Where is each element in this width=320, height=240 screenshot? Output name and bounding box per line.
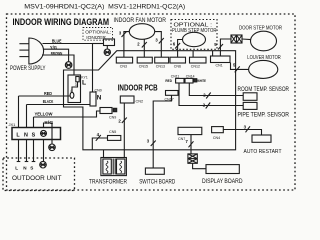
louver wire: [231, 63, 249, 70]
svg-text:OPTIONAL:: OPTIONAL:: [85, 30, 111, 36]
wire blue stub to ionizer: [93, 43, 104, 45]
svg-text:SWITCH BOARD: SWITCH BOARD: [139, 180, 176, 186]
louver connector slash 5: [235, 66, 240, 72]
svg-text:PIPE TEMP. SENSOR: PIPE TEMP. SENSOR: [238, 113, 290, 119]
svg-text:JX1: JX1: [9, 122, 17, 127]
plug prong 1: [19, 43, 29, 45]
svg-text:N: N: [24, 132, 28, 138]
svg-text:RED: RED: [165, 78, 172, 83]
svg-text:S: S: [30, 165, 33, 170]
svg-text:OUTDOOR UNIT: OUTDOOR UNIT: [12, 175, 62, 182]
svg-text:WHITE: WHITE: [197, 78, 206, 83]
svg-text:PLUMB STEP MOTOR: PLUMB STEP MOTOR: [172, 28, 217, 34]
fan wire left: [124, 32, 129, 58]
optional ionizer dashed box: [83, 28, 113, 41]
door step motor ellipse: [251, 31, 277, 51]
transformer core lines: [112, 159, 114, 175]
terminal mark square white: [194, 79, 197, 82]
transformer right coil box: [117, 159, 125, 174]
ground symbol chassis: [49, 144, 56, 151]
switch board box: [145, 168, 164, 174]
plumb step motor dashed box: [171, 20, 217, 50]
switch wire slash 3: [151, 141, 156, 147]
wire N up: [26, 105, 28, 128]
svg-text:CN7: CN7: [178, 137, 185, 141]
plug prong 2: [19, 49, 29, 51]
door motor X connector: [231, 35, 242, 43]
svg-text:N: N: [97, 94, 102, 101]
power supply plug: [29, 38, 44, 64]
wire ground down to outdoor: [43, 140, 45, 162]
connector CN9: [100, 108, 112, 114]
display board box: [206, 165, 239, 174]
outdoor terminal tick N: [25, 161, 29, 163]
svg-text:CN12: CN12: [191, 65, 200, 69]
wire BLUE horizontal: [43, 43, 93, 45]
pipe sensor slash 2: [206, 103, 211, 109]
outdoor terminal tick S: [32, 161, 36, 163]
CN5 slash 4: [96, 135, 101, 141]
svg-text:ROOM TEMP. SENSOR: ROOM TEMP. SENSOR: [238, 87, 290, 93]
svg-text:CN14: CN14: [186, 74, 195, 78]
wire YELLOW: [34, 111, 101, 117]
stub CN12: [192, 51, 194, 58]
room temp sensor box: [243, 93, 257, 101]
svg-text:L: L: [82, 80, 86, 87]
connector CN14: [185, 78, 193, 83]
svg-text:YELLOW: YELLOW: [35, 112, 54, 117]
svg-text:CN5: CN5: [109, 130, 116, 134]
relay internal wire: [72, 82, 78, 93]
wire RED: [19, 95, 71, 97]
wire L up: [18, 96, 20, 128]
ionizer ground stem: [106, 46, 108, 50]
wire Y/G: [44, 49, 69, 62]
connector CN7: [178, 127, 202, 134]
plumb step motor ellipse: [183, 32, 206, 46]
transformer stub left: [103, 150, 105, 158]
svg-text:TRANSFORMER: TRANSFORMER: [89, 180, 128, 186]
transformer left coil box: [103, 159, 111, 174]
svg-text:DISPLAY BOARD: DISPLAY BOARD: [202, 179, 243, 185]
ground symbol ionizer: [104, 49, 110, 55]
svg-text:CN6: CN6: [174, 65, 181, 69]
svg-text:BLACK: BLACK: [43, 99, 54, 104]
louver motor ellipse: [249, 60, 278, 78]
wire L down to outdoor: [18, 140, 20, 162]
connector CN13: [155, 57, 169, 63]
svg-text:POWER SUPPLY: POWER SUPPLY: [10, 66, 46, 72]
door motor wire right: [242, 38, 251, 41]
wire N down to outdoor: [26, 140, 28, 162]
ground symbol outdoor: [40, 161, 47, 168]
stub CN1: [212, 51, 214, 56]
auto restart box: [252, 135, 271, 142]
wire BLACK: [27, 104, 91, 106]
plumb motor wire: [178, 40, 183, 58]
ground symbol power supply: [65, 62, 72, 69]
svg-text:CN11: CN11: [171, 74, 180, 78]
svg-text:RED: RED: [44, 91, 52, 96]
outdoor terminal tick L: [17, 161, 21, 163]
relay contact KY1: [76, 77, 79, 82]
transformer outer box: [101, 158, 127, 176]
fan wire bottom: [143, 39, 145, 57]
terminal mark square: [113, 108, 116, 111]
svg-text:DOOR STEP MOTOR: DOOR STEP MOTOR: [239, 25, 282, 31]
pipe temp sensor box: [243, 102, 257, 109]
svg-text:CN4: CN4: [213, 136, 220, 140]
ionizer component box: [104, 39, 115, 46]
wire S down to outdoor: [33, 140, 35, 162]
connector CN17: [166, 91, 179, 96]
fan bottom connector slash 2: [142, 42, 147, 48]
fuse oval: [70, 92, 74, 98]
connector CN6: [170, 57, 186, 63]
svg-text:CN3: CN3: [120, 65, 127, 69]
CN5 wire to transformer: [92, 138, 107, 150]
svg-text:CN0: CN0: [95, 88, 102, 92]
wire S up: [33, 117, 35, 128]
transformer coil curls right: [120, 161, 122, 173]
wire BROWN: [42, 55, 74, 75]
switch board wire: [153, 95, 171, 168]
connector CN11: [176, 78, 184, 83]
connector CN1: [211, 56, 231, 63]
pipe sensor wire: [179, 83, 243, 106]
door motor wire to CN1: [220, 39, 231, 56]
svg-text:MSV1-12HRDN1-QC2(A): MSV1-12HRDN1-QC2(A): [108, 5, 185, 11]
svg-text:INDOOR PCB: INDOOR PCB: [118, 84, 158, 93]
svg-text:CN15: CN15: [139, 65, 148, 69]
wire BLUE down to CN0: [92, 44, 94, 93]
fan left connector slash 3: [122, 32, 127, 38]
svg-text:CN2: CN2: [136, 99, 144, 103]
fan right connector slash 3: [159, 38, 164, 44]
block ground symbol: [41, 130, 47, 136]
room sensor wire: [189, 83, 243, 96]
CN2 slash 2: [122, 118, 127, 124]
svg-text:S: S: [32, 132, 36, 138]
auto restart slash 3: [246, 126, 251, 132]
CN2 wire to transformer: [123, 103, 125, 158]
display wire to board: [193, 163, 206, 168]
plug prong 3: [19, 56, 29, 58]
connector CN0: [90, 92, 96, 106]
connector CN5: [108, 136, 121, 141]
svg-text:AUTO RESTART: AUTO RESTART: [244, 149, 282, 155]
transformer coil curls left: [106, 161, 108, 173]
svg-text:CN9: CN9: [109, 115, 116, 119]
room sensor slash 2: [206, 93, 211, 99]
svg-text:BLUE: BLUE: [52, 39, 62, 44]
relay/fuse box: [68, 75, 81, 103]
connector CN4: [212, 127, 224, 133]
connector CN2: [120, 96, 134, 103]
fan wire right: [155, 32, 162, 58]
connector CN12: [190, 57, 207, 63]
svg-text:CN13: CN13: [156, 65, 165, 69]
svg-text:INDOOR FAN MOTOR: INDOOR FAN MOTOR: [114, 17, 167, 24]
indoor fan motor ellipse: [129, 24, 154, 40]
indoor PCB outline polygon: [64, 51, 236, 150]
indoor unit dashed border: [7, 14, 296, 190]
svg-text:L: L: [15, 165, 18, 170]
svg-text:INDOOR WIRING DIAGRAM: INDOOR WIRING DIAGRAM: [13, 17, 110, 27]
display X connector: [188, 154, 197, 163]
svg-text:MSV1-09HRDN1-QC2(A): MSV1-09HRDN1-QC2(A): [24, 5, 104, 11]
door connector slash 5: [218, 44, 223, 50]
terminal block JX1: [12, 128, 61, 140]
display slash 7: [189, 141, 194, 147]
auto restart wire: [223, 130, 261, 136]
plumb connector slash 6: [175, 43, 180, 49]
outdoor unit dashed box: [3, 158, 75, 191]
connector CN3: [116, 57, 132, 63]
svg-text:CN1: CN1: [216, 63, 223, 67]
wire ground up to chassis: [44, 123, 53, 144]
connector CN15: [137, 57, 152, 63]
display wire from CN7: [190, 135, 192, 154]
